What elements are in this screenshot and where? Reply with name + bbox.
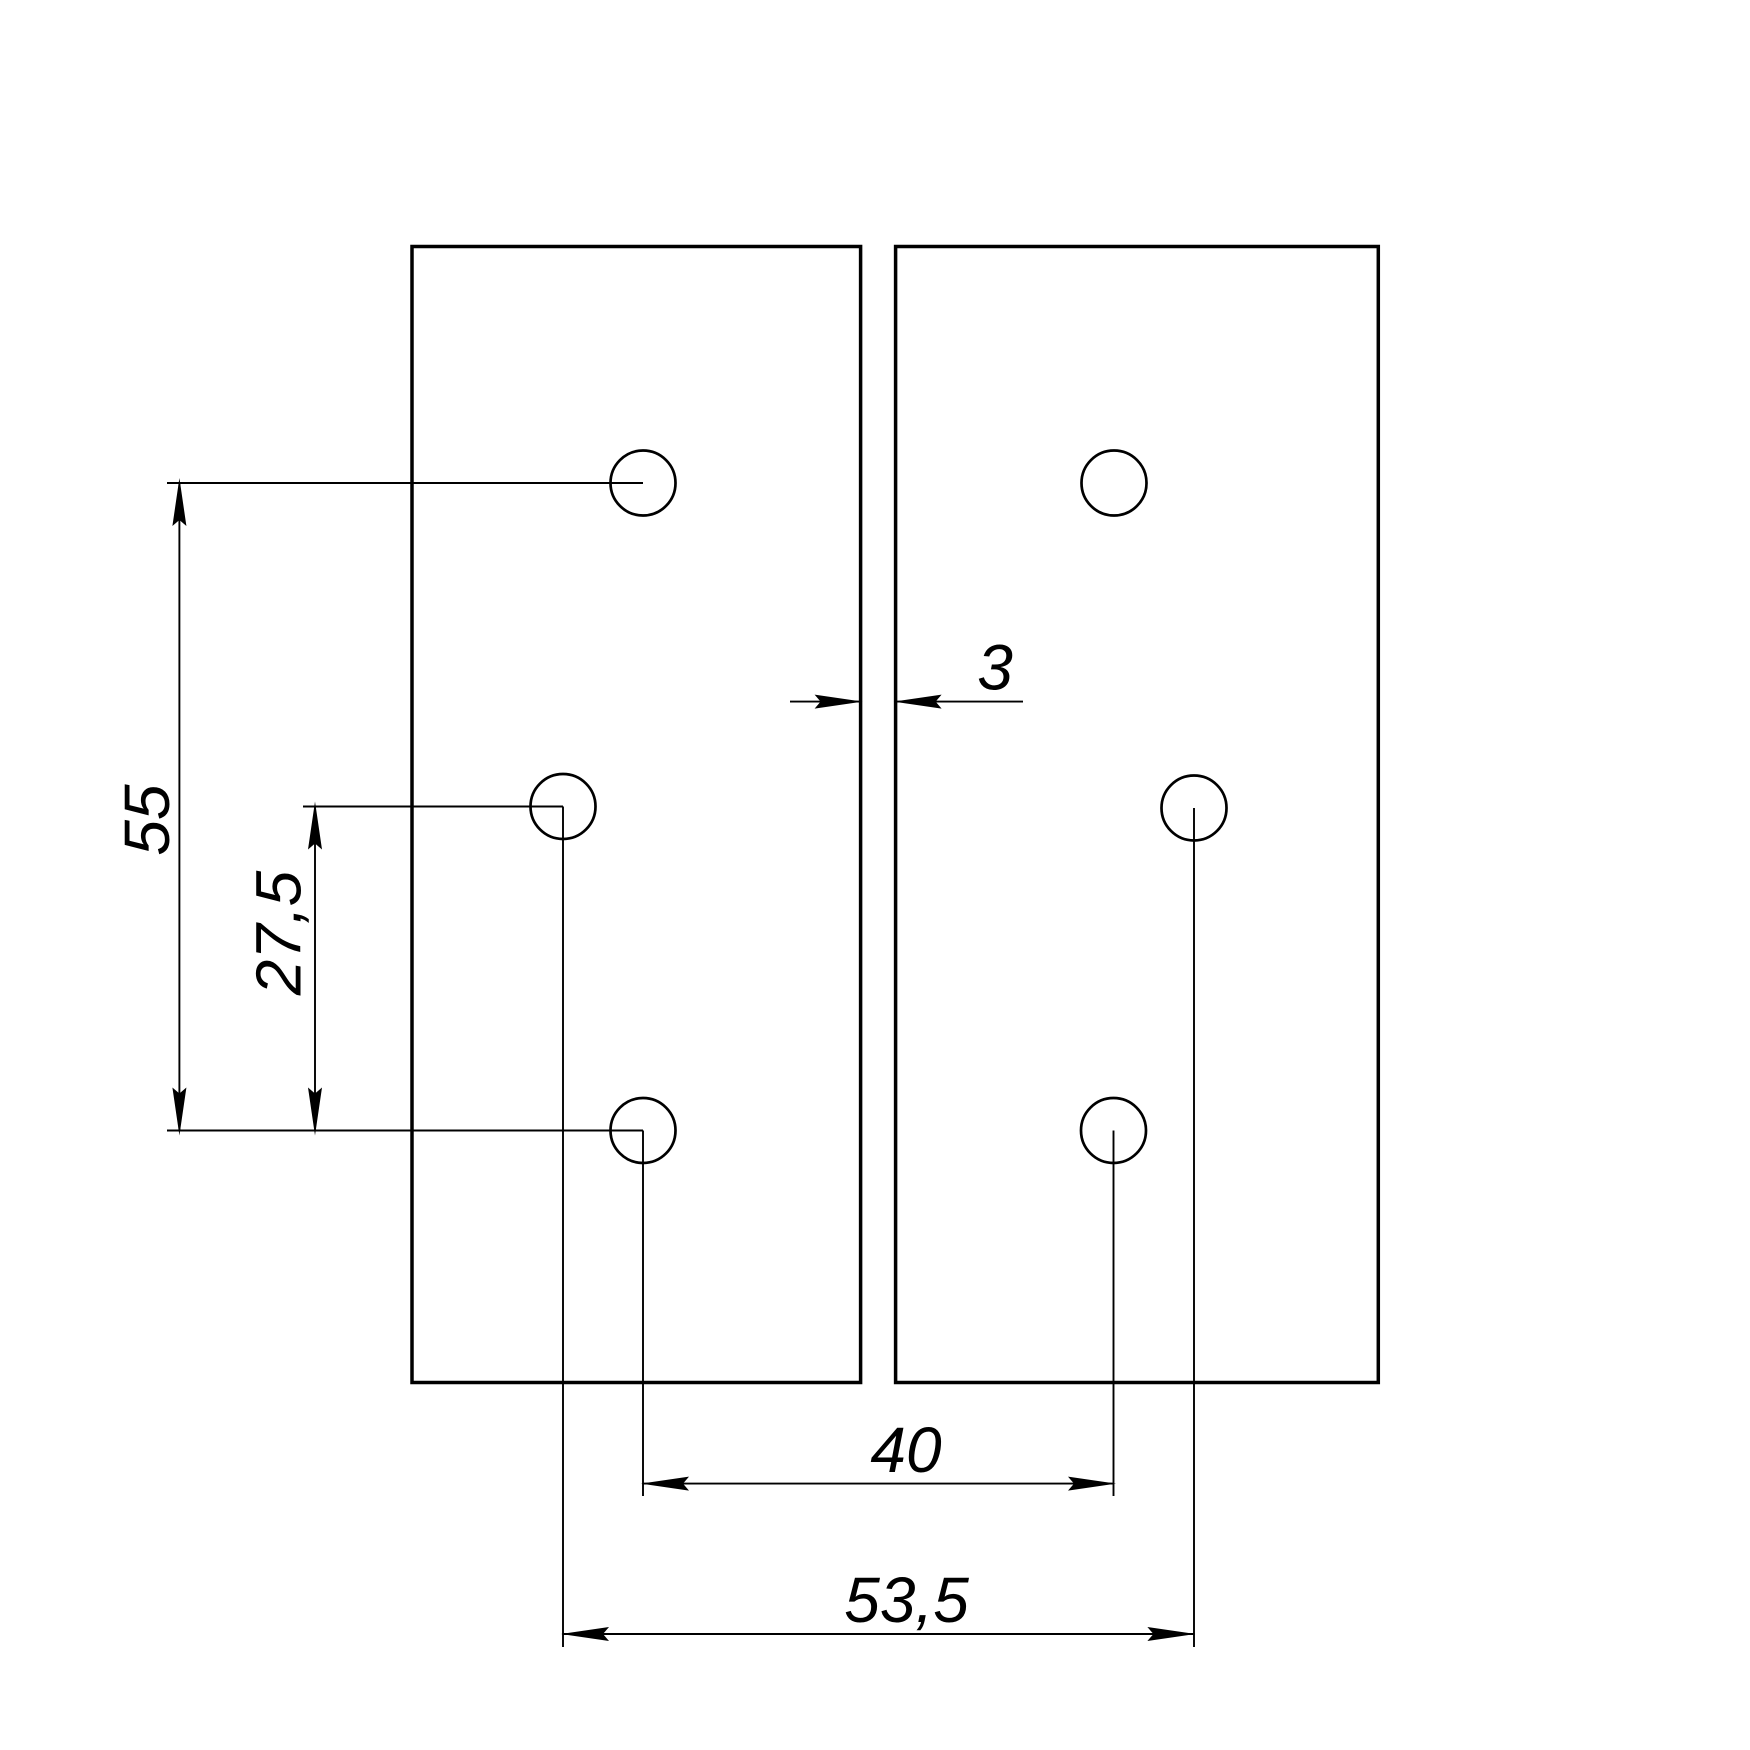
arrow left (dim 40) — [641, 1477, 689, 1491]
arrow up (dim 27,5 top) — [308, 802, 322, 850]
dimension line 53,5 (horizontal) — [563, 1633, 1193, 1635]
hole H4 (top-right plate) — [1082, 451, 1147, 516]
arrow right (dim 53,5) — [1147, 1627, 1195, 1641]
svg-text:3: 3 — [977, 632, 1013, 704]
svg-text:53,5: 53,5 — [844, 1564, 969, 1636]
arrow right (dim 40) — [1068, 1477, 1116, 1491]
arrow down (dim 55 bottom) — [172, 1088, 186, 1136]
dimension line 40 (horizontal) — [643, 1483, 1114, 1485]
svg-text:55: 55 — [111, 784, 183, 856]
hole H5 (middle-right plate) — [1162, 776, 1227, 841]
arrow up (dim 55 top) — [172, 478, 186, 526]
extension line from hole H2 (for dim 27,5) — [303, 806, 563, 808]
svg-text:40: 40 — [870, 1414, 942, 1486]
hole H3 (bottom-left plate) — [611, 1098, 676, 1163]
plate 2 (right) outline — [896, 247, 1379, 1383]
dimension line 27,5 (vertical) — [314, 807, 316, 1131]
arrow left (dim 53,5) — [561, 1627, 609, 1641]
hole H6 (bottom-right plate) — [1081, 1098, 1146, 1163]
projection line from hole H3 down (for dim 40) — [642, 1131, 644, 1497]
projection line from hole H5 down (for dim 53,5) — [1193, 808, 1195, 1647]
svg-text:27,5: 27,5 — [243, 870, 315, 996]
extension line bottom (for dims 55 and 27,5) — [167, 1130, 643, 1132]
projection line from hole H2 down (for dim 53,5) — [562, 807, 564, 1648]
dimension line 55 (vertical) — [178, 483, 180, 1131]
extension line from hole H1 (top, for dim 55) — [167, 482, 643, 484]
hole H2 (middle-left plate) — [531, 774, 596, 839]
dim 3: right segment with left-pointing arrow at right plate left edge — [896, 701, 1023, 703]
dim 3: left segment with right-pointing arrow at left plate right edge — [790, 701, 861, 703]
projection line from hole H6 down (for dim 40) — [1113, 1131, 1115, 1497]
plate 1 (left) outline — [412, 247, 861, 1383]
hole H1 (top-left plate) — [611, 451, 676, 516]
arrow down (dim 27,5 bottom) — [308, 1088, 322, 1136]
